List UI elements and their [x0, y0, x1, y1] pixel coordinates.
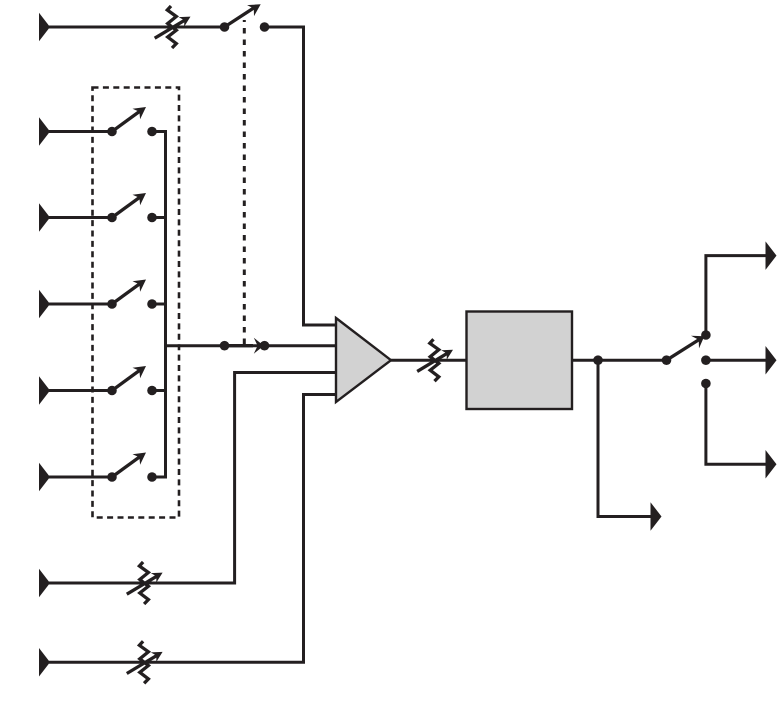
switch S7 lever arrowhead	[225, 338, 264, 354]
wire: S4 throw to bus	[152, 389, 167, 392]
input arrow IN4	[39, 376, 50, 405]
wire: bus to amplifier input 2	[166, 344, 337, 347]
switch S3 throw dot	[147, 299, 157, 309]
wire: contact 1 to OUT1	[706, 256, 766, 335]
switch S4 throw dot	[147, 386, 157, 396]
variable attenuator R4 (master level)	[417, 339, 453, 381]
switch S6 throw dot	[260, 22, 270, 32]
input arrow IN5	[39, 463, 50, 492]
switch S5 pole dot	[107, 472, 117, 482]
wire: S2 throw to bus	[152, 216, 167, 219]
wire: IN8 to amplifier input 4	[49, 395, 336, 663]
input arrow IN7	[39, 569, 50, 598]
wire: S6 to amplifier input 1	[265, 27, 337, 325]
variable attenuator R3	[127, 641, 163, 683]
switch S4 lever	[112, 366, 146, 391]
wire: node A to auxiliary output	[598, 360, 651, 516]
selector switch S8 pole dot	[662, 355, 672, 365]
output arrow OUT3	[766, 450, 777, 479]
variable attenuator R1	[155, 6, 191, 48]
switch S3 lever	[112, 280, 146, 305]
switch S4 pole dot	[107, 386, 117, 396]
block U2 (processor box)	[467, 312, 573, 410]
output arrow OUT4 (auxiliary)	[651, 502, 662, 531]
input arrow IN1	[39, 117, 50, 146]
wire: IN7 to amplifier input 3	[49, 373, 336, 584]
amplifier U1 (summing amp triangle)	[336, 318, 391, 402]
switch S5 throw dot	[147, 472, 157, 482]
mix bus wire (vertical)	[164, 130, 167, 479]
input arrow IN8	[39, 648, 50, 677]
selector S8 contact dot 2	[701, 355, 711, 365]
switch S1 pole dot	[107, 127, 117, 137]
switch S1 lever	[112, 107, 146, 132]
wire: S1 throw to bus	[152, 130, 167, 133]
wire: S3 throw to bus	[152, 303, 167, 306]
output arrow OUT2	[766, 346, 777, 375]
wire: IN5 to switch S5	[49, 476, 112, 479]
selector bank enclosure (dashed)	[93, 88, 180, 518]
switch S3 pole dot	[107, 299, 117, 309]
switch S7 pole dot (closed, ganged)	[220, 341, 230, 351]
junction node A	[593, 355, 603, 365]
variable attenuator R2	[127, 562, 163, 604]
wire: contact 3 to OUT3	[706, 384, 766, 465]
switch S6 pole dot	[220, 22, 230, 32]
mechanical gang link S6-S7 (dashed)	[243, 20, 246, 344]
wire: IN3 to switch S3	[49, 303, 112, 306]
input arrow IN6	[39, 13, 50, 42]
switch S1 throw dot	[147, 127, 157, 137]
output arrow OUT1	[766, 241, 777, 270]
switch S6 lever	[225, 4, 261, 27]
selector switch S8 lever	[667, 336, 705, 361]
wire: IN4 to switch S4	[49, 389, 112, 392]
wire: S5 throw to bus	[152, 476, 167, 479]
switch S2 throw dot	[147, 213, 157, 223]
wire: U1 output to block U2	[391, 359, 467, 362]
wire: IN1 to switch S1	[49, 130, 112, 133]
selector S8 contact dot 3	[701, 379, 711, 389]
selector S8 contact dot 1	[701, 330, 711, 340]
switch S7 throw dot	[260, 341, 270, 351]
input arrow IN2	[39, 203, 50, 232]
wire: contact 2 to OUT2	[706, 359, 766, 362]
switch S2 pole dot	[107, 213, 117, 223]
switch S5 lever	[112, 453, 146, 478]
wire: IN6 to attenuator R1 to switch S6	[49, 26, 225, 29]
wire: IN2 to switch S2	[49, 216, 112, 219]
input arrow IN3	[39, 290, 50, 319]
switch S2 lever	[112, 193, 146, 218]
wire: U2 output to selector S8	[572, 359, 667, 362]
